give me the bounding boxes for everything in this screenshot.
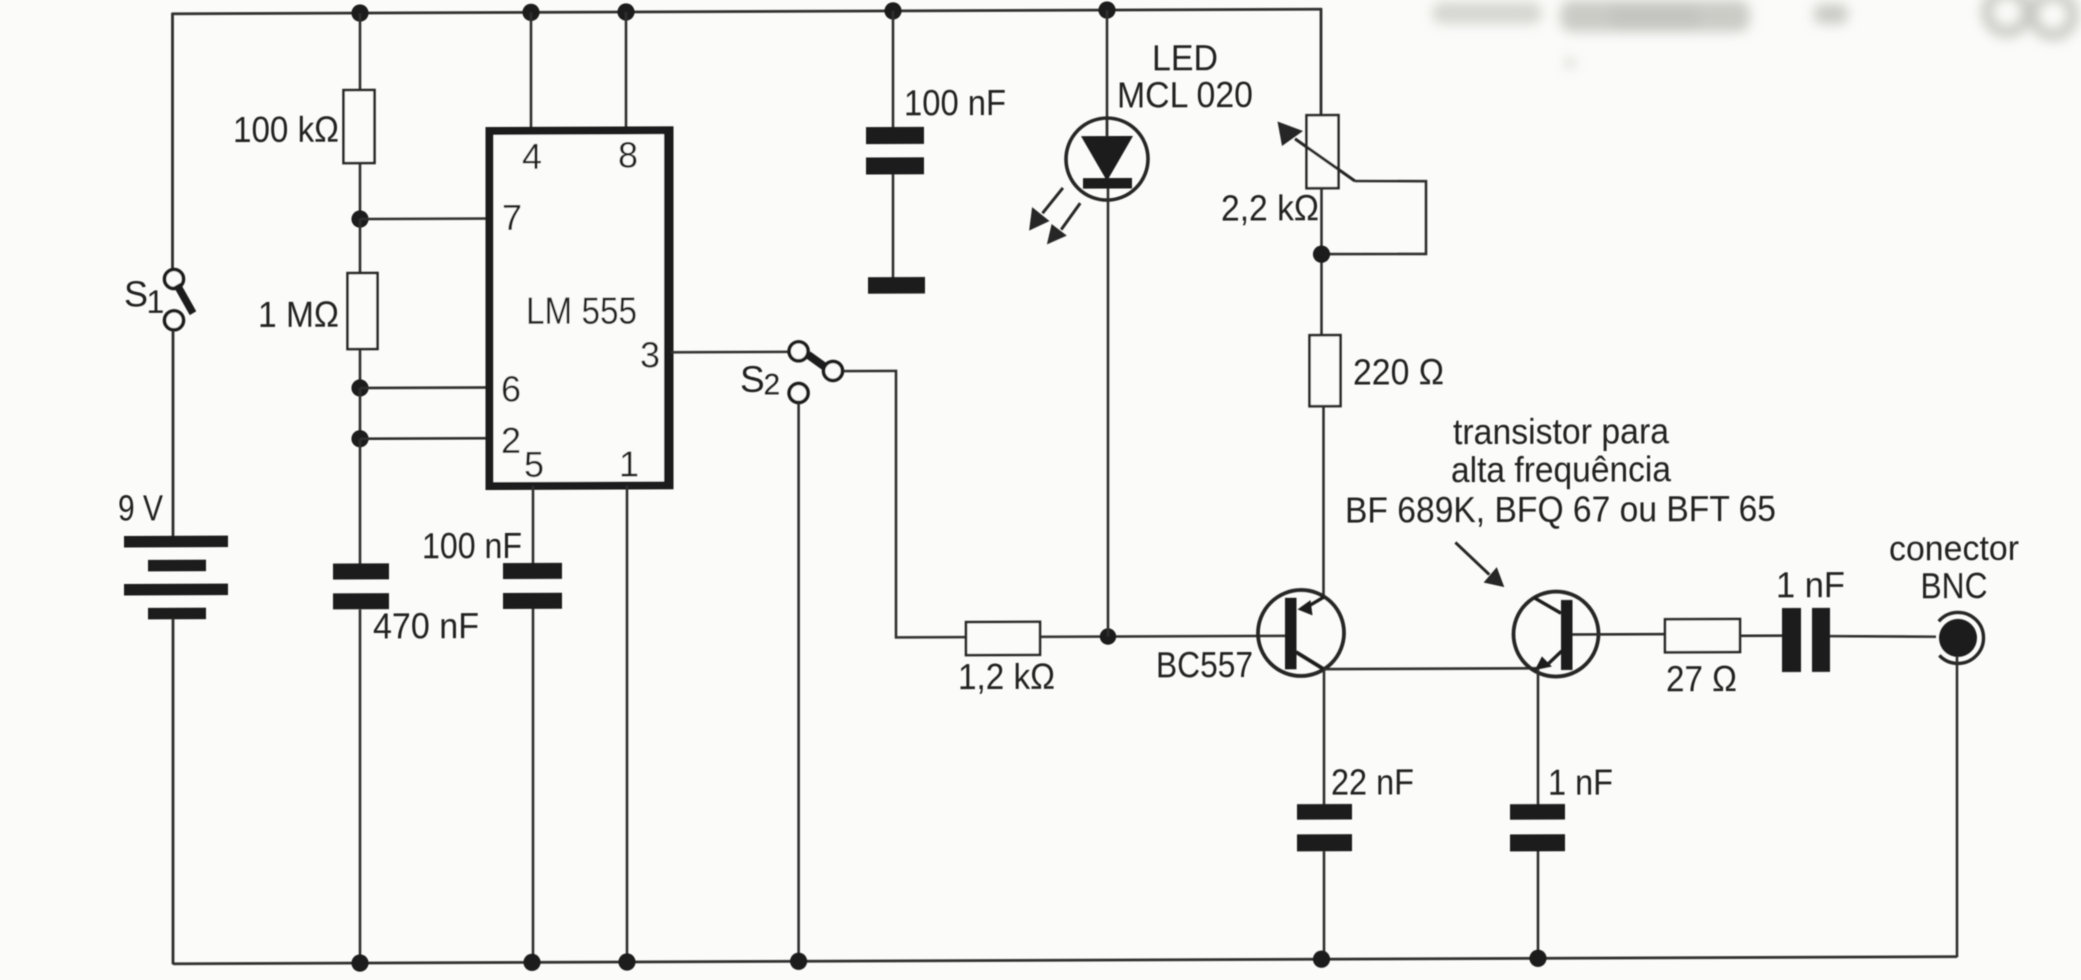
potentiometer 2,2 kOhm body: [1307, 115, 1339, 188]
svg-text:BC557: BC557: [1156, 644, 1253, 685]
wire pin 4: [530, 12, 533, 131]
potentiometer wiper link: [1329, 181, 1426, 255]
svg-text:2: 2: [501, 420, 521, 461]
node junction pin7: [351, 210, 368, 227]
wire node to 1M: [359, 219, 362, 274]
capacitor 100 nF top middle: [866, 127, 924, 175]
battery 9V: [124, 536, 228, 620]
wire node pin6 to node pin2: [359, 388, 362, 439]
wire S2 lower contact to bottom rail: [797, 403, 800, 962]
wire top supply rail: [172, 9, 1322, 14]
capacitor 100 nF at pin 5: [503, 563, 562, 609]
faint print bleed-through top right: [1432, 0, 2073, 68]
svg-text:100 kΩ: 100 kΩ: [233, 109, 339, 150]
wire pin 3 to S2: [671, 351, 789, 354]
svg-text:LM 555: LM 555: [526, 290, 637, 332]
resistor 27 Ohm: [1665, 619, 1740, 652]
wire 100nF lower lead: [892, 174, 895, 277]
svg-text:alta frequência: alta frequência: [1451, 448, 1672, 490]
node top rail junction x893: [884, 2, 901, 19]
wire node pin2 down to 470nF: [359, 439, 362, 565]
svg-text:1: 1: [619, 443, 639, 484]
svg-text:S: S: [740, 359, 765, 400]
svg-text:1 MΩ: 1 MΩ: [258, 294, 339, 335]
svg-text:100 nF: 100 nF: [904, 82, 1006, 123]
wire S2 out right: [844, 371, 967, 638]
svg-text:100 nF: 100 nF: [422, 525, 522, 566]
wire left rail upper segment: [171, 13, 174, 270]
node junction pin6: [351, 379, 368, 396]
node LED junction: [1100, 628, 1116, 644]
node bottom rail junction x360: [351, 954, 368, 971]
wire top rail corner down to trimpot: [1320, 8, 1323, 116]
svg-text:27 Ω: 27 Ω: [1666, 658, 1737, 699]
wire from top rail to 100k: [359, 13, 362, 91]
svg-text:4: 4: [522, 136, 542, 177]
capacitor 22 nF: [1297, 804, 1352, 851]
svg-text:MCL 020: MCL 020: [1117, 74, 1253, 116]
switch S2: [789, 342, 842, 403]
svg-text:8: 8: [618, 134, 638, 175]
svg-text:7: 7: [502, 197, 522, 238]
LED light arrow 2: [1047, 203, 1080, 244]
wire 1M to node pin6: [359, 349, 362, 389]
wire top rail to 100nF cap: [892, 11, 895, 129]
svg-text:9 V: 9 V: [118, 487, 163, 528]
svg-text:6: 6: [501, 368, 521, 409]
wire BNC to bottom rail: [1956, 656, 1959, 957]
wire pin 5 to 100nF: [532, 486, 535, 564]
svg-text:1,2 kΩ: 1,2 kΩ: [958, 656, 1055, 697]
wire pin 2: [360, 437, 486, 440]
svg-text:220 Ω: 220 Ω: [1353, 351, 1444, 392]
wire pin 7: [360, 217, 486, 220]
svg-text:LED: LED: [1152, 37, 1218, 78]
node top rail junction pin8: [617, 3, 634, 20]
LED light arrow 1: [1029, 188, 1063, 231]
resistor 1 MOhm: [348, 273, 378, 349]
node top rail junction x360: [351, 4, 368, 21]
svg-text:1 nF: 1 nF: [1548, 762, 1613, 803]
svg-text:BNC: BNC: [1921, 565, 1988, 606]
wire 1,2k to transistor base: [1040, 635, 1286, 639]
wire T2 base to 27 Ohm: [1572, 633, 1665, 636]
node junction pin2: [351, 430, 368, 447]
wire left rail mid segment: [172, 330, 175, 537]
LED MCL 020: [1066, 118, 1148, 200]
node top rail junction LED: [1098, 1, 1115, 18]
wire T1 collector to T2 emitter: [1324, 667, 1538, 670]
capacitor 1 nF series: [1782, 608, 1830, 672]
resistor 1,2 kOhm: [966, 622, 1040, 655]
wire 1nF series to BNC: [1830, 636, 1936, 637]
resistor 220 Ohm: [1310, 335, 1341, 406]
node bottom rail junction x798: [790, 953, 807, 970]
node top rail junction pin4: [522, 4, 539, 21]
svg-text:3: 3: [640, 334, 660, 375]
capacitor 470 nF: [333, 563, 389, 609]
wire pin 8: [625, 12, 628, 131]
transistor Q2 high frequency: [1514, 591, 1599, 676]
wire 100k to node pin7: [359, 163, 362, 221]
svg-text:470 nF: 470 nF: [373, 605, 479, 646]
wire bottom ground rail: [173, 957, 1957, 964]
node bottom rail junction x1324: [1313, 951, 1330, 968]
svg-text:1 nF: 1 nF: [1776, 564, 1845, 605]
svg-text:5: 5: [524, 444, 544, 485]
wire 1nF to bottom rail: [1537, 851, 1540, 959]
annotation arrow to Q2: [1455, 542, 1504, 587]
node bottom rail junction x627: [618, 953, 635, 970]
node bottom rail junction x533: [523, 954, 540, 971]
resistor 100 kOhm: [344, 90, 375, 163]
wire pin 1 to bottom rail: [626, 485, 629, 962]
svg-text:conector: conector: [1889, 529, 2019, 569]
wire pin 6: [360, 386, 486, 389]
svg-text:2,2 kΩ: 2,2 kΩ: [1221, 187, 1319, 228]
svg-text:transistor para: transistor para: [1453, 410, 1670, 452]
capacitor 1 nF shunt: [1510, 804, 1565, 851]
wire top rail to LED: [1106, 10, 1109, 121]
wire 220 to transistor T1 emitter: [1322, 406, 1325, 598]
wire T2 emitter down to 1nF: [1537, 668, 1540, 805]
wire LED to junction: [1107, 189, 1110, 637]
node bottom rail junction x1538: [1529, 950, 1546, 967]
IC U1 LM555 box: [490, 130, 670, 486]
svg-text:1: 1: [147, 284, 165, 320]
svg-text:2: 2: [764, 368, 781, 401]
connector BNC: [1939, 612, 1984, 663]
wire left rail lower segment: [172, 618, 175, 964]
capacitor end plate: [868, 277, 925, 294]
transistor Q1 BC557: [1258, 590, 1344, 676]
wire 100nF to bottom rail: [532, 609, 535, 963]
switch S1: [165, 269, 194, 329]
svg-text:22 nF: 22 nF: [1331, 761, 1414, 802]
node pot wiper junction: [1313, 246, 1330, 263]
wire pot to junction node: [1320, 188, 1323, 336]
svg-text:BF 689K, BFQ 67 ou BFT 65: BF 689K, BFQ 67 ou BFT 65: [1345, 488, 1776, 531]
wire T1 collector down to 22nF: [1323, 669, 1326, 805]
wire 470nF to bottom rail: [359, 609, 362, 963]
wire 22nF to bottom rail: [1323, 851, 1326, 959]
potentiometer arrow: [1278, 121, 1356, 181]
svg-text:S: S: [124, 273, 148, 314]
wire 27 Ohm to 1nF series: [1740, 634, 1782, 637]
